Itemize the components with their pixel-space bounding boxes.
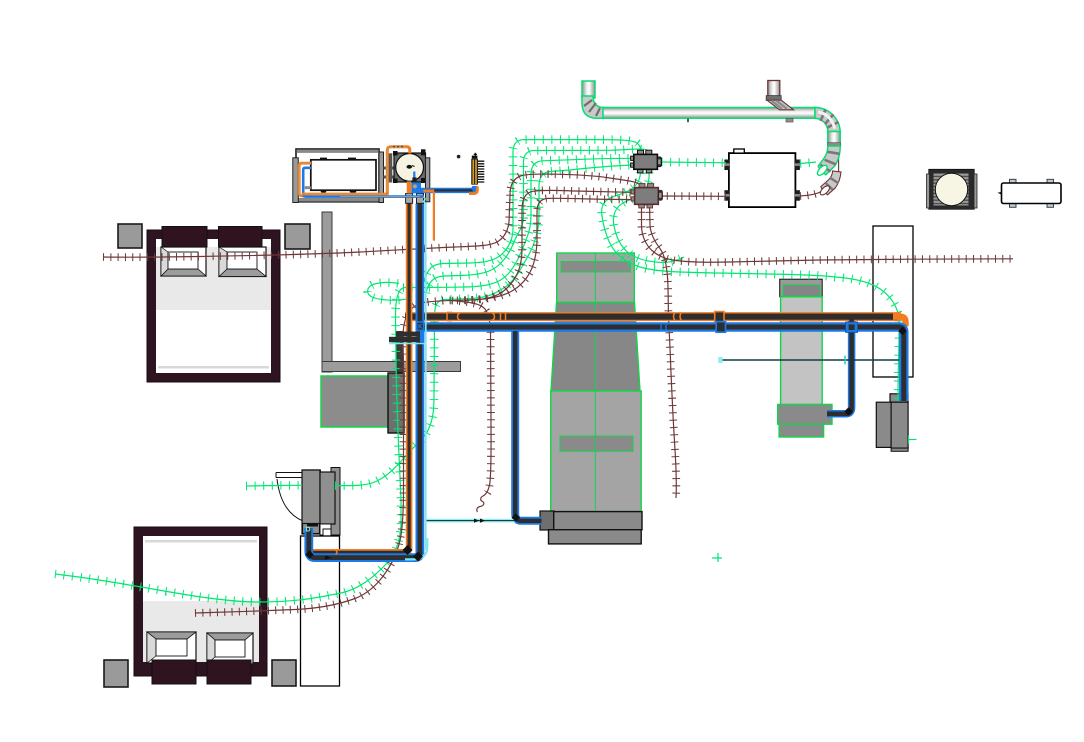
HRV port left bottom: [724, 190, 729, 201]
duct main horizontal: [603, 108, 815, 119]
HRV body: [729, 153, 796, 207]
duct lower elbow: [816, 146, 840, 177]
pipe blue coupler right tee: [846, 322, 858, 332]
pipe junction stubs: [396, 332, 424, 337]
duct exhaust stub top: [688, 81, 794, 123]
duct exhaust elbow lower (brown): [819, 171, 841, 197]
air handler mid trapezoid: [551, 303, 640, 392]
pipe orange elbow under radiator: [469, 187, 477, 194]
pipe K coupler: [417, 322, 424, 330]
flex pipe to HRV left: [660, 192, 727, 200]
flex duct to HRV left: [662, 158, 727, 167]
pipe blue coupler square: [716, 322, 725, 333]
air handler column top: [557, 253, 635, 303]
bed 1 cushion left: [161, 247, 206, 276]
air handler lower inner bar: [560, 436, 633, 451]
boiler blue loop left: [303, 168, 424, 197]
bed 2 cushion right: [207, 633, 253, 664]
pipe cyan lavatory line: [427, 519, 515, 523]
cyan glyph near riser: [424, 197, 427, 204]
nightstand lower-right: [272, 660, 296, 686]
pipe main orange run: [405, 312, 901, 321]
duct stub top-left: [582, 81, 595, 98]
right equipment box right: [891, 402, 908, 448]
duct chase bottom box: [778, 404, 832, 424]
flex pipe D: brown box south drop: [650, 205, 677, 499]
flex duct S2 to green box top2: [426, 149, 649, 293]
door leaf: [276, 473, 302, 478]
boiler orange top arc: [387, 147, 410, 195]
pipe cyan tracer vertical: [425, 196, 427, 550]
bed 2 sheet line: [145, 540, 257, 543]
nightstand upper-left: [118, 224, 142, 248]
duct drop: [388, 373, 404, 433]
bed 2 frame: [134, 527, 267, 676]
pipe orange right elbow: [893, 317, 906, 327]
air handler pedestal small box: [540, 511, 554, 530]
flex duct G: green box inner loop: [613, 173, 684, 263]
flex pipe A: upper bed to brown box top: [103, 174, 640, 257]
HRV port left top: [724, 160, 729, 171]
pipe orange coupler square: [715, 312, 724, 322]
flex duct S4 toilet run: [246, 481, 302, 490]
HRV port right top: [795, 160, 800, 171]
L wall horizontal: [322, 362, 461, 372]
boiler orange loop left: [299, 163, 311, 196]
tall chase rectangle right: [873, 226, 913, 377]
flex duct A: lower bed long run: [55, 288, 403, 602]
HRV notch: [734, 149, 745, 153]
pipe vertical bundle orange: [311, 204, 409, 553]
pipe orange fitting glyphs: [336, 312, 682, 554]
bed 1 sheet line: [158, 366, 269, 369]
air handler top inner bar: [561, 262, 631, 273]
flex duct S3 to green box left: [403, 158, 631, 287]
air handler centerline: [557, 253, 635, 512]
boiler orange bottom run: [302, 193, 389, 196]
fin tube radiator: [471, 153, 484, 185]
boiler right posts: [384, 153, 395, 182]
flex pipe B3: second riser to brown box left2: [465, 198, 631, 300]
flex duct hook at wall: [368, 282, 408, 300]
pipe right tee drop to chase boxes: [827, 321, 852, 414]
pipe black arrow on toilet run: [325, 556, 332, 560]
pipe vertical bundle blue + toilet drop: [309, 204, 420, 558]
flex duct HRV right: [800, 162, 816, 164]
flex duct F: green box to right equipment: [602, 173, 899, 402]
door swing arc: [277, 479, 303, 521]
pipe main blue run with right drop: [416, 327, 904, 401]
flex duct end tick right: [908, 435, 917, 444]
duct chase bottom box 2: [779, 424, 824, 437]
bed 2 pillow right: [207, 660, 251, 684]
duct left elbow: [582, 96, 604, 118]
air handler lower body: [551, 391, 642, 512]
bed 2 mattress: [143, 601, 259, 662]
pipe elbow diamonds: [403, 545, 413, 555]
flex duct small tick bottom middle: [712, 553, 722, 562]
air handler pedestal: [554, 512, 642, 530]
bed 1 pillow left: [162, 227, 207, 248]
L wall vertical: [322, 212, 332, 372]
pipe riser sleeves: [406, 194, 413, 204]
duct right elbow down: [815, 108, 840, 133]
duct chase column cap: [780, 279, 823, 297]
boiler inner box: [305, 158, 376, 193]
chase rectangle below closet: [301, 536, 340, 686]
flex pipe C: brown box to long east run: [642, 205, 1014, 263]
black dot: [457, 155, 461, 159]
pipe orange branch right of fan: [423, 189, 434, 192]
supply manifold box (green): [631, 150, 662, 173]
fan blue outlet: [411, 172, 421, 194]
duct chase column cap inner: [783, 285, 820, 296]
HRV port right bottom: [795, 190, 800, 201]
pipe teal line: [721, 359, 899, 361]
flex pipe B: lower bed to brown box left: [195, 190, 631, 613]
duct chase column: [781, 297, 823, 406]
fan housing: [393, 149, 426, 183]
duct right vertical: [828, 132, 840, 147]
flex pipe HRV right: [800, 192, 821, 197]
water closet unit: [302, 468, 340, 536]
exhaust manifold box (brown): [631, 184, 662, 208]
nightstand lower-left: [104, 660, 128, 687]
fan flange right: [426, 158, 430, 202]
flex duct S1 to green box top1: [424, 140, 641, 282]
duct drop pipe: [396, 331, 403, 376]
bed 2 pillow left: [152, 660, 196, 684]
bed 1 frame: [147, 230, 280, 382]
duct exhaust hidden edge: [838, 126, 840, 174]
right equipment box top stub: [890, 394, 908, 402]
air handler pedestal lower: [549, 530, 642, 544]
pipe blue run glyph: [661, 324, 666, 331]
fan orange tee: [407, 181, 412, 193]
bed 1 cushion right: [219, 247, 266, 277]
nightstand upper-right: [285, 224, 310, 249]
pipe blue run to radiator: [420, 186, 475, 190]
flex pipe H: center drop with hook: [452, 301, 491, 495]
green room box: [321, 376, 388, 427]
cyan D glyph toilet: [307, 527, 310, 531]
bed 1 pillow right: [219, 227, 263, 248]
pipe blue pedestal drop: [515, 331, 541, 521]
right equipment box bottom strip: [891, 448, 908, 451]
bed 1 mattress: [156, 247, 271, 310]
bed 2 cushion left: [147, 632, 196, 663]
right equipment box left: [876, 402, 891, 447]
boiler outer frame: [293, 149, 384, 203]
